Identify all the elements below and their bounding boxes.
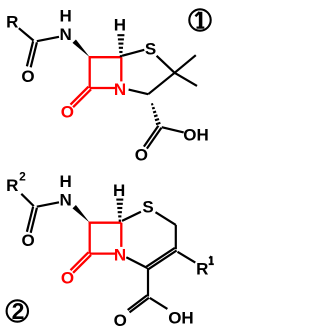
svg-text:S: S — [145, 40, 156, 59]
atom label R2 (bottom) — [6, 169, 26, 195]
bond C2-methyl down (top) — [175, 73, 197, 86]
beta-lactam ring right side (bottom, red) — [120, 223, 122, 247]
bond C2-methyl up (top) — [175, 55, 196, 73]
bond S-C2 (top) — [157, 56, 175, 73]
hashed wedge C6-H (bottom) — [116, 200, 123, 221]
hashed wedge C3-COOH (top) — [151, 104, 160, 124]
bond C4-COOH (bottom) — [147, 268, 149, 297]
bond R-C(amide) — [19, 28, 34, 40]
bond N5-C4 (bottom) — [126, 257, 147, 268]
bond C5-S (top) — [122, 50, 144, 56]
beta-lactam ring bottom side (top, red) — [90, 87, 116, 89]
svg-text:2: 2 — [12, 298, 25, 324]
svg-text:R: R — [6, 12, 18, 31]
double bond C=O (bottom carboxyl) — [128, 295, 149, 312]
beta-lactam ring left side (top, red) — [89, 56, 91, 88]
beta-lactam ring bottom side (bottom, red) — [90, 252, 116, 254]
bond C6-S (bottom) — [122, 212, 141, 221]
svg-text:O: O — [21, 67, 34, 86]
bond COOH C-OH (bottom) — [150, 298, 168, 309]
label circled 2 — [7, 298, 28, 324]
bond C(amide)-N (top) — [37, 37, 59, 41]
svg-text:OH: OH — [183, 125, 209, 144]
svg-text:OH: OH — [168, 309, 194, 328]
svg-text:H: H — [59, 172, 71, 191]
svg-text:N: N — [114, 245, 126, 264]
bond C(amide)-N (bottom) — [37, 202, 59, 206]
svg-text:O: O — [135, 146, 148, 165]
wedge bond N-C7 (bottom) — [73, 205, 90, 223]
bond CH2-C3 (bottom) — [175, 225, 177, 249]
bond S-CH2 (bottom) — [156, 212, 176, 225]
bond R2-C(amide) (bottom) — [21, 194, 34, 206]
svg-text:O: O — [21, 231, 34, 250]
hashed wedge C5-H (top) — [117, 35, 124, 56]
svg-text:O: O — [61, 102, 74, 121]
double bond C3=C4 (bottom ring) — [146, 248, 176, 269]
svg-text:O: O — [61, 268, 74, 287]
svg-text:H: H — [113, 181, 125, 200]
beta-lactam ring right side (top, red) — [120, 57, 122, 81]
label circled 1 — [189, 9, 210, 30]
svg-text:R: R — [196, 260, 208, 279]
bond COOH C-OH (top) — [162, 127, 184, 132]
double bond C=O (bottom amide) — [27, 207, 37, 233]
wedge bond N-C6 (top) — [73, 40, 90, 58]
beta-lactam ring left side (bottom, red) — [89, 222, 91, 254]
svg-text:N: N — [59, 25, 71, 44]
beta-lactam ring top side (bottom, red) — [89, 222, 122, 224]
double bond C=O (top amide) — [27, 41, 37, 67]
atom label R1 (bottom) — [196, 256, 214, 278]
bond N4-C3 (top) — [129, 90, 149, 95]
svg-text:N: N — [114, 80, 126, 99]
svg-text:2: 2 — [19, 169, 26, 183]
bond C2-C3 (top) — [148, 73, 174, 94]
double bond C7=O (top lactam carbonyl, red) — [71, 87, 92, 108]
svg-text:S: S — [142, 198, 153, 217]
bond C3-R1 (bottom) — [178, 252, 196, 263]
svg-text:H: H — [59, 7, 71, 26]
svg-text:H: H — [114, 16, 126, 35]
svg-text:O: O — [114, 311, 127, 330]
svg-text:R: R — [6, 176, 18, 195]
double bond C=O (top carboxyl) — [144, 126, 162, 149]
svg-text:N: N — [59, 191, 71, 210]
beta-lactam ring top side (top, red) — [89, 56, 122, 58]
double bond C8=O (bottom lactam carbonyl, red) — [71, 252, 92, 272]
